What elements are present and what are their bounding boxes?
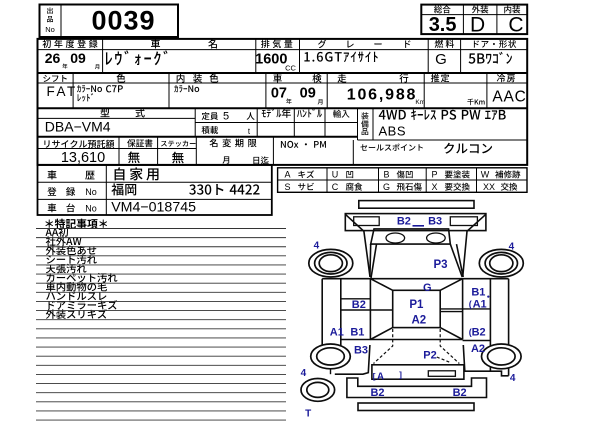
svg-text:FAT: FAT xyxy=(47,84,78,99)
svg-text:(: ( xyxy=(469,299,472,309)
svg-text:5: 5 xyxy=(223,111,229,123)
svg-text:G: G xyxy=(423,282,432,294)
svg-text:XX: XX xyxy=(483,182,495,192)
svg-text:A1: A1 xyxy=(473,299,487,311)
svg-text:B1: B1 xyxy=(471,287,485,299)
svg-text:(: ( xyxy=(469,327,472,337)
svg-text:ABS: ABS xyxy=(379,124,407,139)
svg-text:X: X xyxy=(431,182,437,192)
svg-text:26: 26 xyxy=(45,50,61,66)
svg-text:B3: B3 xyxy=(428,216,442,228)
svg-text:1600: 1600 xyxy=(255,51,287,67)
svg-text:T: T xyxy=(305,409,311,420)
svg-text:P: P xyxy=(431,170,437,180)
svg-text:No: No xyxy=(85,203,97,213)
svg-text:AAC: AAC xyxy=(492,89,526,106)
svg-text:G: G xyxy=(435,51,447,68)
svg-text:3.5: 3.5 xyxy=(429,14,457,36)
svg-text:C: C xyxy=(332,182,339,192)
svg-text:P1: P1 xyxy=(409,299,424,311)
svg-text:U: U xyxy=(332,170,339,180)
svg-text:B2: B2 xyxy=(453,387,467,399)
svg-text:B: B xyxy=(383,170,389,180)
svg-text:P2: P2 xyxy=(423,349,436,361)
svg-text:A1: A1 xyxy=(330,327,344,339)
svg-text:Km: Km xyxy=(415,99,425,106)
svg-text:S: S xyxy=(284,182,290,192)
svg-text:A: A xyxy=(284,170,290,180)
svg-text:VM4−018745: VM4−018745 xyxy=(111,200,196,216)
svg-text:09: 09 xyxy=(300,85,316,101)
svg-text:B1: B1 xyxy=(350,327,364,339)
svg-text:B2: B2 xyxy=(370,387,384,399)
svg-text:P3: P3 xyxy=(433,259,447,271)
svg-text:4: 4 xyxy=(314,241,320,252)
svg-text:106,988: 106,988 xyxy=(347,87,417,104)
svg-text:B2: B2 xyxy=(352,299,366,311)
svg-text:4: 4 xyxy=(509,242,515,253)
svg-text:4: 4 xyxy=(510,373,516,384)
svg-text:C: C xyxy=(508,13,523,36)
svg-text:07: 07 xyxy=(271,85,287,101)
svg-text:D: D xyxy=(470,13,485,36)
svg-text:CC: CC xyxy=(285,64,296,73)
svg-text:W: W xyxy=(481,170,490,180)
svg-text:B3: B3 xyxy=(354,344,368,356)
svg-text:B2: B2 xyxy=(472,327,486,339)
svg-text:A: A xyxy=(377,372,384,383)
svg-text:B2: B2 xyxy=(397,216,411,228)
svg-text:G: G xyxy=(383,182,390,192)
svg-text:4: 4 xyxy=(301,368,307,379)
svg-text:A2: A2 xyxy=(471,343,485,355)
svg-text:[: [ xyxy=(373,371,376,381)
svg-text:09: 09 xyxy=(70,50,86,66)
svg-text:A2: A2 xyxy=(411,314,426,326)
svg-text:]: ] xyxy=(399,370,402,380)
svg-text:DBA−VM4: DBA−VM4 xyxy=(45,118,111,134)
svg-text:No: No xyxy=(45,25,55,34)
svg-text:0039: 0039 xyxy=(91,6,155,36)
svg-text:13,610: 13,610 xyxy=(61,150,105,166)
svg-text:No: No xyxy=(85,187,97,197)
